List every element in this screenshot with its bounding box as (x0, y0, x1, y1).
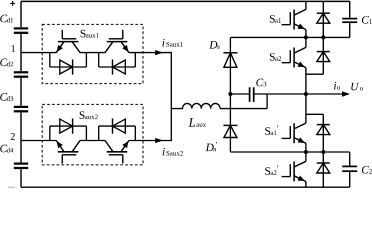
wire Saux1 mid segment (80, 52, 105, 54)
current arrow iSaux1 (155, 50, 163, 55)
label Da (209, 41, 217, 48)
node midline1-leg junction (304, 35, 308, 39)
label Cd1 (0, 15, 7, 23)
wire midline1 (Da cathode to C1) (230, 36, 349, 38)
capacitor C3 (249, 87, 251, 102)
wire Saux1 output segment (129, 52, 172, 54)
node midline2-leg junction (304, 150, 308, 154)
capacitor C1 (349, 1, 351, 17)
wire Saux2 output segment (129, 140, 172, 142)
node midline2-diode junction (321, 150, 325, 154)
diode Sa1' antiparallel (306, 113, 323, 115)
diode Saux2 left antiparallel diode (49, 126, 51, 140)
transistor Saux1 right IGBT (107, 41, 128, 43)
wire bottom DC rail (-) (21, 186, 350, 188)
transistor Sa2' (293, 161, 295, 181)
inductor Laux (171, 103, 220, 108)
wire output line left (230, 93, 249, 95)
label Saux2 (80, 111, 85, 119)
label io (334, 82, 336, 90)
transistor Sa1' (293, 123, 295, 143)
label Cd4 (0, 145, 7, 153)
wire right phase-leg vertical (305, 1, 307, 9)
diode Sa2 antiparallel (322, 37, 324, 74)
diode Da (223, 52, 237, 54)
capacitor C2 (349, 152, 351, 166)
diode Saux2 right antiparallel diode (98, 126, 100, 140)
label iSaux1 (162, 39, 164, 47)
transistor Sa2 (293, 48, 295, 68)
current arrow iSaux2 (155, 138, 163, 143)
label Sa2 (270, 53, 275, 61)
label + (positive terminal) (10, 2, 15, 4)
label Sa2' (265, 167, 270, 175)
wire clamp vertical upper (229, 37, 231, 94)
capacitor Cd4 (14, 162, 28, 164)
wire aux junction vertical (170, 53, 172, 141)
current arrow io (342, 91, 350, 96)
label Laux (188, 118, 195, 127)
transistor Saux2 left IGBT (58, 151, 79, 153)
label C2 (362, 166, 369, 174)
transistor Saux2 right IGBT (107, 151, 128, 153)
node midline1-diode junction (321, 35, 325, 39)
wire clamp vertical lower (229, 94, 231, 152)
dashed box Saux1 (42, 24, 143, 83)
label Da' (206, 144, 214, 151)
wire left DC rail (20, 1, 22, 27)
label Uo (351, 83, 359, 91)
diode Saux1 right antiparallel diode (98, 53, 100, 67)
capacitor Cd1 (14, 27, 28, 29)
diode Saux1 left antiparallel diode (49, 53, 51, 67)
node output junction (304, 92, 308, 96)
wire node1 to Saux1 (21, 52, 56, 54)
label iSaux2 (163, 148, 165, 156)
transistor Sa1 (293, 10, 295, 30)
wire midline2 (Da' anode to C2) (230, 151, 349, 153)
capacitor Cd3 (14, 106, 28, 108)
wire output line right (254, 93, 343, 95)
node 1 (11, 45, 15, 52)
wire node2 to Saux2 (21, 140, 56, 142)
dashed box Saux2 (42, 104, 143, 164)
diode Sa1 antiparallel (322, 1, 324, 37)
transistor Saux1 left IGBT (58, 41, 79, 43)
label Sa1 (270, 15, 275, 23)
label C1 (362, 16, 369, 24)
label Cd2 (0, 59, 7, 67)
wire Laux to output node (266, 94, 268, 109)
label Saux1 (81, 30, 86, 38)
diode Sa2' antiparallel (322, 152, 324, 187)
node clamp-C3 junction (228, 92, 232, 96)
diode Da' (223, 124, 237, 126)
wire top DC rail (+) (21, 0, 350, 2)
wire Saux2 mid segment (80, 140, 105, 142)
label - (negative terminal) (8, 187, 15, 189)
label Cd3 (0, 93, 7, 101)
node 2 (11, 133, 15, 140)
label Sa1' (265, 127, 270, 135)
label C3 (256, 79, 263, 87)
capacitor Cd2 (14, 71, 28, 73)
